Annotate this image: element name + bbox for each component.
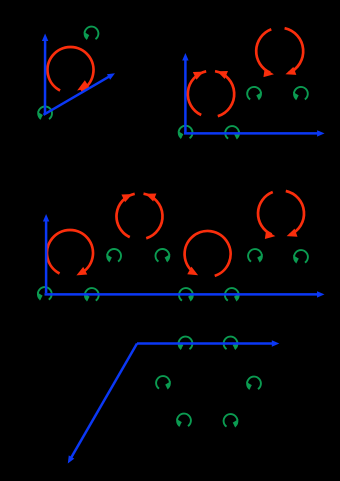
red merged contour 4 (arrows down) figure-3 — [258, 191, 304, 239]
green pole marker mid-left figure-4 — [156, 376, 171, 389]
red loop (clockwise) figure-1 — [48, 47, 94, 90]
green pole marker low-right figure-4 — [224, 414, 239, 427]
green pole marker b figure-3 — [156, 249, 171, 262]
blue y-axis arrow figure-3 — [43, 214, 49, 293]
green pole marker on contour right figure-4 — [224, 337, 239, 350]
blue x-axis arrow figure-3 — [45, 291, 325, 297]
green pole marker at origin figure-3 — [37, 287, 52, 300]
blue y-axis arrow figure-1 — [42, 34, 48, 115]
green pole marker mid-right figure-4 — [246, 377, 261, 390]
red merged contour 2 (arrows up) figure-3 — [116, 194, 162, 239]
red merged contour (arrows down) figure-2 — [256, 28, 303, 77]
green pole marker low-left figure-4 — [176, 414, 191, 427]
green pole marker c figure-3 — [248, 249, 263, 262]
green pole marker on x-axis figure-2 — [225, 126, 240, 139]
blue contour horizontal arrow figure-4 — [137, 340, 279, 346]
blue x-axis arrow figure-2 — [184, 130, 325, 136]
green pole marker on x-axis 2 figure-3 — [179, 288, 194, 301]
red loop 1 (clockwise) figure-3 — [47, 230, 93, 275]
green pole marker on x-axis 3 figure-3 — [225, 288, 240, 301]
red merged contour (arrows up) figure-2 — [188, 71, 234, 116]
green pole marker on contour left figure-4 — [178, 337, 193, 350]
blue contour diagonal arrow figure-4 — [68, 344, 137, 464]
green pole marker left figure-2 — [247, 87, 262, 100]
green pole marker right figure-2 — [293, 87, 308, 100]
red loop 3 (counterclockwise) figure-3 — [185, 231, 231, 276]
green pole marker a figure-3 — [106, 249, 121, 262]
green pole marker at origin figure-1 — [37, 107, 52, 120]
blue ray arrow figure-1 — [44, 73, 116, 115]
green pole marker on x-axis 1 figure-3 — [84, 288, 99, 301]
green pole marker top figure-1 — [84, 27, 99, 40]
green pole marker d figure-3 — [293, 250, 308, 263]
blue y-axis arrow figure-2 — [182, 53, 188, 134]
green pole marker at origin figure-2 — [178, 126, 193, 139]
